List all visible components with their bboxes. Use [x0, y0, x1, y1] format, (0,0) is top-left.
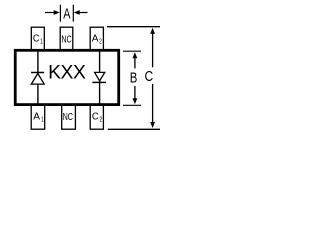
svg-text:2: 2 — [100, 117, 103, 124]
svg-text:NC: NC — [63, 112, 73, 123]
svg-text:A: A — [92, 34, 99, 45]
svg-text:C: C — [144, 69, 153, 85]
svg-text:A: A — [33, 111, 40, 122]
svg-text:C: C — [33, 34, 40, 45]
svg-text:B: B — [130, 71, 138, 87]
svg-text:1: 1 — [41, 116, 44, 123]
svg-text:1: 1 — [40, 39, 43, 46]
svg-text:KXX: KXX — [48, 63, 86, 84]
svg-text:C: C — [92, 112, 99, 123]
svg-text:NC: NC — [61, 34, 71, 45]
svg-text:A: A — [63, 6, 71, 22]
svg-text:2: 2 — [99, 39, 102, 46]
